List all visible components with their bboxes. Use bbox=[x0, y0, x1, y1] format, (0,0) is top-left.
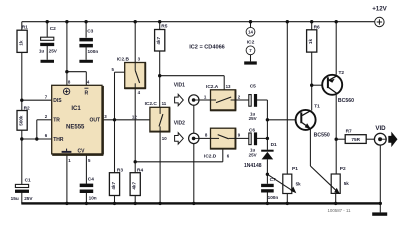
resistor R2 bbox=[17, 105, 30, 130]
wire IC2.B pin5 stub bbox=[115, 71, 125, 73]
IC1 plus symbol bbox=[63, 88, 69, 94]
potentiometer P2 bbox=[310, 166, 349, 194]
svg-text:IC2.C: IC2.C bbox=[145, 101, 158, 107]
wire R6 bottom to T1 collector bbox=[311, 52, 313, 110]
svg-text:VID: VID bbox=[375, 125, 386, 132]
junction ground/IC2.C pin10 bbox=[158, 202, 161, 205]
wire pin4 drop bbox=[85, 72, 87, 86]
junction R2/DIS bbox=[20, 99, 23, 102]
svg-text:R: R bbox=[85, 90, 89, 96]
svg-text:4k7: 4k7 bbox=[156, 37, 161, 45]
wire P2 bottom lead bbox=[335, 193, 337, 203]
wire DIS pin7 bbox=[22, 99, 52, 101]
junction rail/P1 bbox=[286, 20, 289, 23]
junction rail/pin8 bbox=[65, 20, 68, 23]
capacitor C1 (electrolytic) bbox=[11, 177, 34, 201]
svg-text:IC2: IC2 bbox=[247, 40, 255, 46]
svg-text:R3: R3 bbox=[117, 167, 123, 173]
junction pin8 jog bbox=[65, 70, 68, 73]
svg-text:T2: T2 bbox=[339, 70, 345, 76]
wire IC2.D pin9 to C6 bbox=[236, 137, 249, 139]
wire R2 bottom to THR node bbox=[21, 130, 23, 139]
junction rail/R6 bbox=[310, 20, 313, 23]
wire VID1 to IC2.A pin1 bbox=[199, 99, 210, 101]
svg-text:IC2.B: IC2.B bbox=[117, 57, 130, 63]
IC2 power pins block bbox=[244, 27, 257, 64]
svg-text:IC1: IC1 bbox=[71, 106, 81, 112]
svg-text:25V: 25V bbox=[24, 196, 33, 201]
junction rail/IC2 pin14 bbox=[249, 20, 252, 23]
junction ground/R4 bbox=[134, 202, 137, 205]
svg-text:4k7: 4k7 bbox=[111, 182, 116, 190]
capacitor C7 bbox=[261, 177, 278, 200]
svg-text:DIS: DIS bbox=[53, 98, 62, 104]
ground symbol bottom right bbox=[372, 212, 387, 215]
svg-text:100n: 100n bbox=[268, 195, 279, 200]
junction ground/pin1 bbox=[65, 202, 68, 205]
svg-text:IC2 = CD4066: IC2 = CD4066 bbox=[189, 44, 225, 50]
ground symbol under IC2 pin7 bbox=[244, 61, 257, 64]
svg-text:1u: 1u bbox=[39, 48, 45, 53]
junction T2/R7/P2 bbox=[335, 138, 338, 141]
wire C6 node to D1 cathode bbox=[266, 138, 268, 150]
resistor R1 bbox=[17, 25, 28, 53]
wire T2 base bbox=[312, 84, 327, 86]
wire pin1 to ground bbox=[66, 156, 68, 204]
wire R2 top lead bbox=[21, 100, 23, 110]
svg-text:1N4148: 1N4148 bbox=[244, 163, 262, 169]
svg-text:25V: 25V bbox=[49, 48, 58, 53]
wire node R4 to IC2.D pin6 bbox=[135, 161, 223, 163]
wire pin8 feed vertical bbox=[66, 22, 68, 86]
wire R7 node to P2 bbox=[335, 139, 337, 174]
wire VID2 shield to ground bbox=[193, 144, 195, 204]
IC1 internal ground glyph bbox=[62, 151, 72, 153]
resistor R3 bbox=[109, 167, 123, 195]
wire IC2 pin7 stub bbox=[250, 55, 252, 62]
svg-text:R2: R2 bbox=[24, 105, 30, 111]
wire TR branch vertical bbox=[36, 120, 38, 139]
wire P1 bottom lead bbox=[286, 194, 288, 204]
wire R1 top lead bbox=[21, 22, 23, 31]
junction rail/R5 bbox=[158, 20, 161, 23]
wire VID1 shield to VID2 shield bbox=[193, 105, 195, 133]
wire T1 emitter down bbox=[309, 130, 311, 167]
svg-text:11: 11 bbox=[162, 101, 167, 106]
wire P1 top feed from rail bbox=[286, 22, 288, 174]
svg-text:15u: 15u bbox=[11, 196, 19, 201]
svg-text:500k: 500k bbox=[19, 115, 24, 126]
svg-text:CV: CV bbox=[78, 149, 86, 155]
svg-text:C3: C3 bbox=[87, 28, 93, 34]
svg-text:BC560: BC560 bbox=[338, 98, 354, 104]
junction C6/D1 bbox=[266, 137, 269, 140]
svg-text:P1: P1 bbox=[292, 166, 298, 172]
wire TR pin2 bbox=[37, 119, 52, 121]
wire C5 to corner bbox=[257, 99, 267, 101]
ground symbol under C3 bbox=[79, 60, 93, 63]
wire T2 emitter to rail bbox=[335, 22, 337, 75]
junction R4/pin4/pin6 bbox=[134, 160, 137, 163]
junction rail/IC2.B pin3 bbox=[134, 20, 137, 23]
resistor R5 bbox=[155, 24, 168, 52]
wire T2 collector down to R7 node bbox=[335, 95, 337, 139]
svg-text:75R: 75R bbox=[351, 137, 360, 142]
wire R5 top lead bbox=[159, 22, 161, 30]
analog switch IC2.D bbox=[204, 128, 241, 159]
wire VID2 to IC2.D pin8 bbox=[199, 137, 210, 139]
wire C2 bottom lead bbox=[46, 46, 48, 60]
wire corner down to T1 base node bbox=[266, 100, 268, 120]
svg-text:C5: C5 bbox=[250, 84, 256, 90]
transistor T2 BC560 bbox=[322, 70, 354, 104]
svg-text:10n: 10n bbox=[89, 195, 97, 200]
wire C4 bottom lead bbox=[85, 193, 87, 203]
wire wiper node to C7 bbox=[266, 174, 268, 184]
junction R2/THR/C1 bbox=[20, 137, 23, 140]
wire IC2.B pin3 from rail bbox=[134, 22, 136, 63]
junction ground/C4 bbox=[85, 202, 88, 205]
wire T1 base bbox=[267, 119, 300, 121]
wire R6 top lead bbox=[311, 22, 313, 30]
resistor R4 bbox=[130, 167, 143, 195]
junction rail/C3 bbox=[84, 20, 87, 23]
junction rail/C2 bbox=[46, 20, 49, 23]
op-amp/IC IC1 NE555 bbox=[45, 80, 108, 164]
svg-text:4k7: 4k7 bbox=[132, 182, 137, 190]
svg-text:T1: T1 bbox=[314, 103, 320, 109]
wire node down to C6 node bbox=[266, 120, 268, 139]
wire IC2.A pin13 drop bbox=[223, 76, 225, 90]
wire C3 top lead bbox=[85, 22, 87, 38]
svg-text:D1: D1 bbox=[271, 142, 277, 148]
wire IC2.C pin10 to ground bbox=[159, 132, 161, 204]
potentiometer P1 bbox=[267, 166, 301, 193]
capacitor C6 bbox=[249, 128, 258, 158]
svg-text:R6: R6 bbox=[314, 24, 320, 30]
svg-text:R5: R5 bbox=[161, 24, 167, 30]
diode D1 1N4148 bbox=[244, 142, 277, 169]
wire VID jack shield to ground bbox=[379, 145, 381, 203]
wire pin5 branch vertical (IC2.B pin5 / R3) bbox=[114, 72, 116, 173]
junction rail/T2 bbox=[335, 20, 338, 23]
connector VID1 input bbox=[174, 82, 199, 105]
svg-text:25V: 25V bbox=[249, 152, 257, 157]
wire R4 bottom lead bbox=[134, 196, 136, 204]
junction TR tap bbox=[35, 137, 38, 140]
capacitor C3 bbox=[79, 28, 98, 54]
svg-text:10: 10 bbox=[162, 136, 167, 141]
wire IC2.A pin2 to C5 bbox=[236, 99, 249, 101]
wire R7 to VID jack bbox=[366, 138, 374, 140]
svg-text:+12V: +12V bbox=[372, 6, 387, 13]
svg-text:BC550: BC550 bbox=[314, 133, 330, 139]
wire IC2.B pin4 drop bbox=[134, 89, 136, 162]
wire OUT pin3 to IC2.C pin12 bbox=[103, 119, 150, 121]
junction ground/VID shield bbox=[192, 202, 195, 205]
svg-text:IC2.D: IC2.D bbox=[204, 153, 217, 159]
capacitor C5 bbox=[249, 84, 258, 122]
wire C7 bottom lead bbox=[266, 191, 268, 203]
svg-text:R4: R4 bbox=[137, 167, 143, 173]
junction ground/P1 bbox=[286, 202, 289, 205]
svg-text:100587 - 11: 100587 - 11 bbox=[327, 208, 351, 213]
svg-text:5k: 5k bbox=[344, 181, 350, 186]
svg-text:THR: THR bbox=[53, 137, 64, 143]
svg-text:R1: R1 bbox=[22, 25, 28, 31]
connector VID2 input bbox=[174, 120, 199, 144]
junction OUT/pin5/R3 bbox=[113, 118, 116, 121]
svg-text:C1: C1 bbox=[25, 177, 31, 183]
svg-text:IC2.A: IC2.A bbox=[206, 84, 219, 90]
svg-text:OUT: OUT bbox=[89, 118, 100, 124]
analog switch IC2.A bbox=[204, 84, 241, 111]
svg-text:R7: R7 bbox=[346, 128, 352, 134]
svg-text:P2: P2 bbox=[340, 166, 346, 172]
svg-text:5k: 5k bbox=[296, 182, 302, 187]
wire IC2.D pin6 riser bbox=[222, 149, 224, 162]
wire ground stub to ground symbol bbox=[379, 203, 381, 212]
svg-text:C2: C2 bbox=[50, 26, 56, 32]
analog switch IC2.B bbox=[112, 57, 146, 95]
junction C5/T1 base bbox=[266, 118, 269, 121]
junction ground/C7 bbox=[266, 202, 269, 205]
capacitor C4 bbox=[80, 176, 97, 200]
svg-text:1k: 1k bbox=[308, 39, 313, 45]
svg-text:100n: 100n bbox=[88, 49, 99, 54]
svg-text:C4: C4 bbox=[88, 176, 94, 182]
wire D1 anode to wiper node bbox=[266, 159, 268, 174]
svg-text:14: 14 bbox=[248, 30, 253, 35]
svg-text:13: 13 bbox=[226, 84, 231, 89]
wire C1 top lead bbox=[21, 139, 23, 184]
capacitor C2 (electrolytic) bbox=[39, 26, 58, 54]
wire C1 bottom lead bbox=[21, 192, 23, 203]
wire IC2.C pin11 from R5 node bbox=[159, 76, 161, 108]
junction ground/P2 bbox=[334, 202, 337, 205]
wire pin5 to C4 bbox=[85, 156, 87, 184]
wire R4 top lead bbox=[134, 162, 136, 173]
wire top +12V rail bbox=[22, 21, 375, 23]
junction R6/T1/T2 base bbox=[310, 84, 313, 87]
ground rail (bottom) bbox=[21, 202, 381, 204]
wire pin8-pin4 jog bbox=[67, 71, 86, 73]
wire R3 bottom lead bbox=[114, 196, 116, 204]
svg-text:25V: 25V bbox=[249, 116, 257, 121]
wire C6 to D1 node bbox=[257, 137, 267, 139]
svg-text:NE555: NE555 bbox=[66, 125, 85, 131]
resistor R7 bbox=[345, 128, 366, 143]
wire C3 bottom lead bbox=[85, 47, 87, 60]
wire R5 node to IC2.A pin13 bbox=[160, 75, 225, 77]
wire node to R7 bbox=[336, 138, 345, 140]
junction ground/VID out bbox=[379, 202, 382, 205]
svg-text:VID2: VID2 bbox=[174, 120, 185, 126]
analog switch IC2.C bbox=[132, 101, 170, 141]
svg-text:VID1: VID1 bbox=[174, 82, 185, 88]
wire C2 top lead bbox=[46, 22, 48, 37]
junction ground/R3 bbox=[113, 202, 116, 205]
svg-text:12: 12 bbox=[132, 114, 137, 119]
ground symbol under C2 bbox=[41, 60, 55, 63]
wire IC2 pin14 stub bbox=[250, 22, 252, 28]
svg-text:C6: C6 bbox=[249, 128, 255, 134]
wire THR pin6 bbox=[22, 138, 52, 140]
svg-text:1k: 1k bbox=[19, 40, 24, 46]
svg-text:TR: TR bbox=[53, 118, 60, 124]
+12V supply terminal bbox=[372, 6, 387, 27]
wire R1 bottom to DIS node bbox=[21, 52, 23, 100]
transistor T1 BC550 bbox=[296, 103, 330, 138]
wire R5 bottom lead bbox=[159, 51, 161, 76]
resistor R6 bbox=[307, 24, 320, 52]
junction D1/C7/P1 wiper bbox=[266, 173, 269, 176]
connector VID output bbox=[374, 125, 397, 147]
junction R5/pin13/pin11 bbox=[158, 74, 161, 77]
